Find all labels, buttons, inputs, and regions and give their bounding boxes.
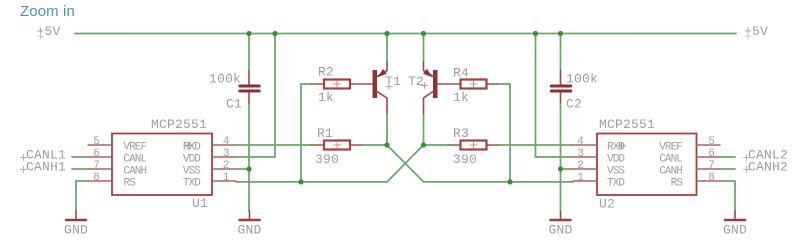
wire T2 collector down [423, 113, 425, 145]
supply +5V right [744, 24, 768, 39]
svg-text:RXD: RXD [607, 142, 625, 154]
wire R2 left down to TXD U1 row [301, 84, 312, 182]
wire +5V rail [75, 33, 736, 35]
junction R2 / TXD U1 row [298, 179, 303, 184]
U1 pin 1 TXD [183, 172, 236, 190]
wire CANH2 [720, 168, 735, 170]
svg-text:CANH: CANH [659, 166, 682, 178]
op-amp U2 (MCP2551 IC box) [597, 117, 697, 212]
svg-text:GND: GND [723, 223, 747, 238]
U1 pin 8 RS [88, 172, 136, 190]
svg-text:T2: T2 [408, 74, 424, 89]
svg-text:1: 1 [223, 172, 230, 184]
wire VDD U1 to rail [236, 34, 275, 158]
U2 pin 4 RXD [573, 136, 625, 154]
svg-text:7: 7 [708, 160, 715, 172]
wire R1 to T1 collector node [363, 144, 388, 146]
supply +5V left [37, 24, 61, 39]
wire RXD U1 to R1 [236, 144, 312, 146]
op-amp U1 (MCP2551 IC box) [112, 117, 212, 211]
wire T2 collector node to R3 [424, 144, 449, 146]
svg-text:VDD: VDD [607, 154, 625, 166]
svg-text:VREF: VREF [123, 142, 146, 154]
svg-text:390: 390 [453, 152, 477, 167]
U2 pin 3 VDD [573, 148, 625, 166]
U1 pin 6 CANL [88, 148, 147, 166]
junction rail at VDD2 [533, 31, 538, 36]
wire diagonal T1 collector to TXD U2 row [387, 145, 573, 182]
junction VSS U1 / C1 gnd [246, 166, 251, 171]
capacitor C2 [551, 71, 598, 112]
svg-text:CANL: CANL [659, 154, 682, 166]
U1 pin 5 VREF [88, 136, 147, 154]
wire CANL1 [72, 156, 88, 158]
svg-text:8: 8 [93, 172, 100, 184]
ground GND (C2) [548, 211, 572, 238]
junction T2 collector node [421, 142, 426, 147]
svg-text:R2: R2 [318, 65, 334, 80]
wire C1 bottom to GND [248, 103, 250, 211]
svg-text:1: 1 [577, 172, 584, 184]
resistor R4 1k [438, 66, 497, 106]
wire R3 to RXD U2 [499, 144, 574, 146]
svg-text:CANH1: CANH1 [26, 160, 66, 175]
svg-text:5: 5 [708, 136, 715, 148]
svg-text:C2: C2 [566, 97, 582, 112]
junction rail at C1 [246, 31, 251, 36]
svg-text:1k: 1k [453, 90, 469, 105]
U2 pin 8 RS [671, 172, 720, 190]
junction rail at T1 emitter [384, 31, 389, 36]
svg-text:RXD: RXD [183, 142, 201, 154]
svg-text:1k: 1k [318, 90, 334, 105]
wire VDD U2 to rail [536, 34, 574, 158]
svg-text:R1: R1 [317, 126, 333, 141]
svg-text:R3: R3 [453, 126, 469, 141]
junction VSS U2 / C2 gnd [558, 166, 563, 171]
U2 pin 7 CANH [659, 160, 720, 178]
svg-text:5: 5 [93, 136, 100, 148]
ground GND (U2 RS) [723, 211, 747, 238]
U1 pin 3 VDD [183, 148, 236, 166]
node CANL2 label [744, 148, 789, 163]
svg-text:U1: U1 [192, 196, 208, 211]
svg-text:4: 4 [223, 136, 230, 148]
transistor T2 (PNP) [408, 62, 438, 113]
wire RS U2 to GND [720, 181, 735, 211]
svg-text:CANH2: CANH2 [748, 160, 788, 175]
U1 pin 7 CANH [88, 160, 147, 178]
svg-text:U2: U2 [599, 197, 615, 212]
svg-text:GND: GND [237, 223, 261, 238]
svg-text:VSS: VSS [607, 166, 625, 178]
resistor R1 390 [312, 126, 363, 167]
wire C2 top (rail to C2) [560, 34, 562, 72]
svg-text:R4: R4 [453, 66, 469, 81]
wire C1 top (rail to C1) [248, 34, 250, 72]
ground GND (U1 RS) [64, 211, 88, 238]
U1 pin 4 RXD [183, 136, 236, 154]
wire CANH1 [72, 168, 88, 170]
junction rail at VDD1 [272, 31, 277, 36]
wire VSS U2 [561, 168, 574, 170]
U2 pin 6 CANL [659, 148, 720, 166]
wire T2 emitter to rail [423, 34, 425, 63]
svg-text:4: 4 [577, 136, 584, 148]
svg-text:390: 390 [315, 152, 339, 167]
svg-text:100k: 100k [566, 72, 598, 87]
wire T1 collector down [386, 113, 388, 145]
U2 pin 2 VSS [573, 160, 625, 178]
wire VSS U1 [236, 168, 249, 170]
svg-text:2: 2 [577, 160, 584, 172]
svg-text:100k: 100k [209, 72, 241, 87]
U2 pin 5 VREF [659, 136, 720, 154]
svg-text:2: 2 [223, 160, 230, 172]
svg-text:TXD: TXD [183, 178, 201, 190]
svg-text:TXD: TXD [607, 178, 625, 190]
U1 pin 2 VSS [183, 160, 236, 178]
wire TXD U1 row [236, 181, 387, 183]
ground GND (C1) [237, 211, 261, 238]
svg-text:6: 6 [708, 148, 715, 160]
node CANH1 label [21, 160, 67, 175]
wire T1 emitter to rail [386, 34, 388, 63]
svg-text:GND: GND [548, 223, 572, 238]
svg-text:7: 7 [93, 160, 100, 172]
svg-text:RS: RS [123, 178, 136, 190]
svg-text:3: 3 [223, 148, 230, 160]
wire RS U1 to GND [76, 181, 88, 211]
svg-text:6: 6 [93, 148, 100, 160]
node CANH2 label [744, 160, 789, 175]
svg-text:8: 8 [708, 172, 715, 184]
U2 pin 1 TXD [573, 172, 625, 190]
svg-text:RS: RS [671, 178, 684, 190]
svg-text:VSS: VSS [183, 166, 201, 178]
resistor R2 1k [312, 65, 373, 106]
wire CANL2 [720, 156, 735, 158]
svg-text:GND: GND [64, 223, 88, 238]
wire C2 bottom to GND [560, 103, 562, 211]
resistor R3 390 [448, 126, 499, 167]
junction R4 / TXD U2 row [507, 179, 512, 184]
svg-text:3: 3 [577, 148, 584, 160]
node CANL1 label [21, 148, 67, 163]
svg-text:CANL: CANL [123, 154, 146, 166]
wire diagonal T2 collector to TXD U1 row [387, 145, 424, 182]
svg-text:CANH: CANH [123, 166, 146, 178]
svg-text:MCP2551: MCP2551 [599, 117, 655, 132]
capacitor C1 [209, 71, 259, 112]
svg-text:Zoom in: Zoom in [20, 3, 75, 20]
svg-text:MCP2551: MCP2551 [151, 117, 207, 132]
junction rail at T2 emitter [421, 31, 426, 36]
junction T1 collector node [384, 142, 389, 147]
svg-text:VDD: VDD [183, 154, 201, 166]
transistor T1 (PNP) [373, 62, 402, 113]
svg-text:C1: C1 [226, 97, 242, 112]
junction rail at C2 [558, 31, 563, 36]
wire R4 right down to TXD U2 row [497, 84, 510, 182]
svg-text:VREF: VREF [659, 142, 682, 154]
